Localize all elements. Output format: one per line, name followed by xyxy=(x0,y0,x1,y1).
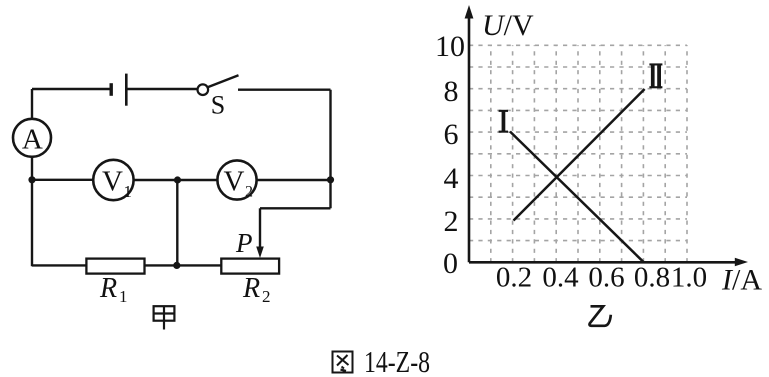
wire slider horizontal xyxy=(260,207,331,209)
label jia (甲) xyxy=(154,306,175,329)
wiper arrow P xyxy=(235,228,264,258)
svg-text:U/V: U/V xyxy=(482,9,534,42)
resistor R2 (rheostat) xyxy=(221,259,279,306)
wire R1 to R2 xyxy=(145,264,222,266)
wire left vertical lower xyxy=(31,157,33,266)
svg-text:14-Z-8: 14-Z-8 xyxy=(364,344,430,377)
svg-text:4: 4 xyxy=(444,162,459,195)
svg-text:I/A: I/A xyxy=(721,264,762,297)
label II xyxy=(649,63,662,88)
wire V1 to V2 xyxy=(134,179,218,181)
svg-text:0.2: 0.2 xyxy=(496,262,532,294)
svg-text:V: V xyxy=(224,166,245,198)
svg-text:1: 1 xyxy=(124,182,133,201)
svg-text:R: R xyxy=(242,273,260,304)
x axis xyxy=(469,258,748,267)
svg-text:R: R xyxy=(99,273,117,304)
label yi (乙) xyxy=(589,306,610,326)
label tu (图) xyxy=(333,352,353,373)
svg-text:10: 10 xyxy=(435,30,465,63)
svg-text:0.4: 0.4 xyxy=(542,262,579,294)
svg-text:A: A xyxy=(22,124,43,156)
svg-text:1.0: 1.0 xyxy=(671,262,707,294)
label I xyxy=(499,110,508,133)
resistor R1 xyxy=(86,259,144,306)
battery B1 xyxy=(111,74,126,106)
svg-text:0: 0 xyxy=(443,247,458,280)
node right junction xyxy=(327,176,334,183)
wire battery to switch xyxy=(127,88,197,90)
svg-text:8: 8 xyxy=(444,75,459,108)
wire middle vertical xyxy=(176,180,178,265)
grid dashed xyxy=(469,45,687,262)
svg-text:S: S xyxy=(211,91,225,120)
svg-text:2: 2 xyxy=(245,184,253,201)
y axis xyxy=(465,5,474,262)
line II xyxy=(514,89,645,221)
svg-text:1: 1 xyxy=(119,287,128,306)
node left junction xyxy=(28,176,35,183)
voltmeter V1 xyxy=(93,160,133,201)
y tick labels xyxy=(435,30,465,280)
svg-text:2: 2 xyxy=(262,287,271,306)
svg-text:2: 2 xyxy=(444,205,459,238)
svg-text:V: V xyxy=(102,166,123,198)
switch S xyxy=(198,75,239,119)
wire bottom left to R1 xyxy=(32,264,86,266)
wire left vertical upper xyxy=(31,89,33,119)
wire right vertical xyxy=(329,90,331,209)
wire top-left horizontal xyxy=(32,88,110,90)
node middle junction bottom xyxy=(173,262,180,269)
wire V2 to right node xyxy=(257,179,331,181)
line I xyxy=(510,132,644,263)
svg-text:0.8: 0.8 xyxy=(634,262,670,294)
ammeter A1 xyxy=(13,119,51,157)
wire node to V1 xyxy=(32,179,93,181)
x tick labels xyxy=(496,262,707,294)
wire switch to right corner xyxy=(238,88,331,90)
node middle junction top xyxy=(174,176,181,183)
voltmeter V2 xyxy=(217,160,256,200)
svg-text:6: 6 xyxy=(444,118,459,151)
svg-text:0.6: 0.6 xyxy=(588,262,624,294)
wire slider vertical xyxy=(259,208,261,247)
svg-text:P: P xyxy=(235,228,253,258)
